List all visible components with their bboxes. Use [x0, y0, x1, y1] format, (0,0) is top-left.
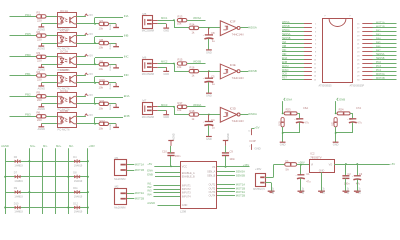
svg-text:AGND: AGND [147, 201, 155, 205]
supply +5V [85, 32, 93, 36]
svg-text:AT90S8535: AT90S8535 [319, 85, 333, 88]
svg-text:AGND: AGND [38, 127, 46, 131]
svg-text:13: 13 [314, 71, 317, 73]
svg-text:MOT1B: MOT1B [376, 25, 385, 28]
ground GND [280, 142, 286, 146]
svg-text:ENB: ENB [339, 98, 345, 102]
power pins IC3P [248, 125, 260, 150]
svg-text:M1: M1 [115, 156, 119, 160]
wire [76, 116, 86, 118]
svg-text:+: + [352, 176, 354, 178]
wire MOT2A [127, 193, 134, 195]
ground AGND [38, 83, 46, 90]
wire row 4 [5, 207, 88, 209]
svg-text:IND: IND [282, 53, 287, 56]
fuse F1 [285, 159, 297, 171]
resistor R7 [99, 19, 109, 31]
diode D10 [14, 202, 24, 213]
ground DGND [110, 43, 119, 50]
diode D4 [73, 156, 83, 167]
svg-text:WNDA: WNDA [248, 112, 257, 116]
wire [297, 113, 300, 115]
svg-text:+5V: +5V [147, 162, 152, 166]
svg-text:1k: 1k [192, 74, 195, 78]
svg-text:GND: GND [254, 147, 260, 151]
wire [240, 114, 248, 116]
junction [208, 70, 210, 72]
svg-text:R21: R21 [331, 121, 334, 126]
svg-text:PA2: PA2 [376, 29, 381, 32]
svg-text:5: 5 [315, 40, 317, 42]
svg-text:WDSA: WDSA [248, 26, 257, 30]
inverter IC3F 74HC14N [220, 20, 243, 37]
svg-text:DGND: DGND [110, 43, 112, 50]
capacitor C9 [222, 150, 236, 167]
svg-text:M2+: M2+ [56, 144, 62, 148]
svg-text:C2: C2 [347, 172, 351, 176]
svg-text:20: 20 [357, 40, 360, 42]
capacitor C8 [203, 28, 216, 43]
svg-text:IN2: IN2 [147, 185, 152, 189]
svg-text:C6A: C6A [303, 106, 308, 110]
svg-text:D9: D9 [14, 187, 18, 190]
ground AGND [38, 24, 46, 31]
wire [76, 43, 116, 45]
svg-text:R4: R4 [37, 70, 41, 74]
svg-text:GND: GND [333, 143, 339, 147]
resistor R12 [99, 119, 109, 131]
svg-text:AGND: AGND [357, 188, 360, 195]
wire [10, 16, 37, 18]
wire [335, 101, 337, 113]
svg-text:ENA: ENA [124, 94, 130, 98]
svg-text:10: 10 [314, 60, 317, 62]
svg-text:6: 6 [315, 44, 317, 46]
ground GND [206, 137, 212, 141]
svg-text:PA7: PA7 [376, 49, 381, 52]
svg-text:10k: 10k [99, 86, 104, 90]
svg-text:11: 11 [314, 64, 317, 66]
svg-text:R13: R13 [178, 14, 183, 18]
svg-text:MOT2B: MOT2B [135, 197, 144, 201]
wire [94, 97, 96, 103]
svg-text:D7: D7 [14, 172, 18, 175]
pin 9 / wire IND [282, 53, 317, 58]
svg-text:D8: D8 [73, 172, 77, 175]
svg-text:10k: 10k [99, 27, 104, 31]
connector M2 [114, 185, 126, 210]
svg-text:D12: D12 [73, 202, 78, 205]
svg-text:SENSA: SENSA [376, 53, 385, 56]
svg-text:30: 30 [357, 79, 360, 81]
svg-text:INA: INA [124, 14, 129, 18]
svg-text:27: 27 [357, 67, 360, 69]
diode D6 [14, 156, 24, 167]
svg-text:VO: VO [329, 164, 333, 167]
svg-text:R19: R19 [278, 121, 281, 126]
svg-text:GND: GND [206, 50, 212, 54]
ground DGND [110, 64, 119, 71]
svg-text:PC3: PC3 [376, 65, 381, 68]
svg-text:IC3D: IC3D [230, 106, 236, 110]
svg-text:MSTBV2,5: MSTBV2,5 [253, 188, 265, 191]
wire [94, 37, 96, 43]
svg-text:GND: GND [280, 143, 286, 147]
wire column 4 [55, 148, 57, 214]
svg-text:IC3E: IC3E [230, 63, 236, 67]
svg-text:+36V: +36V [243, 163, 250, 167]
diode D11 [73, 187, 83, 198]
svg-text:47u: 47u [356, 182, 361, 185]
supply +5V [85, 113, 93, 117]
IC2 GND pin wire [321, 172, 323, 191]
pin 21 / wire PA5 [357, 41, 396, 45]
svg-text:OC1A: OC1A [60, 9, 68, 13]
wire [94, 18, 96, 24]
svg-text:OC3A: OC3A [60, 89, 68, 93]
svg-text:M2: M2 [115, 185, 119, 189]
svg-text:C8: C8 [211, 31, 215, 35]
optocoupler OC3A [58, 89, 77, 111]
svg-text:+: + [203, 78, 205, 80]
junction [94, 82, 96, 84]
svg-text:220: 220 [37, 38, 42, 42]
svg-text:AGND: AGND [346, 188, 349, 195]
wire [41, 103, 57, 105]
svg-text:+: + [203, 35, 205, 37]
svg-text:R10: R10 [100, 78, 106, 82]
optocoupler OC2B [58, 68, 77, 90]
microphone M6 [142, 55, 158, 76]
ground AGND [268, 188, 275, 195]
diode D12 [73, 202, 83, 213]
wire [10, 56, 37, 58]
svg-text:1u: 1u [212, 126, 215, 130]
junction [94, 63, 96, 65]
svg-text:P: P [350, 16, 352, 18]
svg-text:100n: 100n [175, 155, 181, 158]
svg-text:IC2: IC2 [310, 152, 315, 156]
pin 4 / wire SENSA [282, 33, 317, 38]
wire [158, 23, 166, 25]
resistor R19 [278, 118, 284, 127]
connector M1 [114, 156, 126, 181]
ground AGND [298, 188, 305, 195]
wire [46, 96, 57, 98]
svg-text:MIC2SMM: MIC2SMM [142, 29, 154, 33]
svg-text:WDSB: WDSB [248, 69, 257, 73]
optocoupler OC2A [58, 50, 77, 72]
svg-text:MOT1B: MOT1B [135, 168, 144, 172]
wire row 2 [5, 176, 88, 178]
svg-text:AT90S8535P: AT90S8535P [350, 85, 365, 88]
svg-text:SENSB: SENSB [376, 57, 385, 60]
svg-text:25: 25 [357, 60, 360, 62]
svg-text:MIC2SMM: MIC2SMM [142, 72, 154, 76]
svg-text:D10: D10 [14, 202, 19, 205]
wire MOT1A [217, 184, 235, 186]
svg-text:OUT4: OUT4 [209, 195, 216, 198]
svg-text:74HC14N: 74HC14N [232, 33, 244, 37]
IC2 78S05 [310, 152, 335, 173]
svg-text:1N4819: 1N4819 [14, 180, 23, 183]
svg-text:1N4819: 1N4819 [74, 180, 83, 183]
supply +5V [85, 13, 93, 17]
supply +5V [85, 72, 93, 76]
wire [46, 35, 57, 37]
pin 13 / wire MISO [282, 69, 317, 74]
wire [94, 77, 96, 83]
IC4 L298 [180, 162, 217, 214]
wire [158, 20, 174, 22]
junction [335, 113, 337, 115]
svg-text:INPUT4: INPUT4 [182, 195, 192, 198]
resistor R5 [37, 91, 47, 103]
capacitor C6 [294, 106, 309, 124]
ground GND [333, 142, 339, 146]
wire [46, 56, 57, 58]
svg-text:R15: R15 [178, 58, 183, 62]
svg-text:+36V: +36V [255, 167, 262, 171]
wire [350, 113, 353, 115]
wire +5V rail [334, 164, 390, 166]
svg-text:1N4819: 1N4819 [14, 211, 23, 214]
svg-text:PC2: PC2 [376, 61, 381, 64]
svg-text:26: 26 [357, 64, 360, 66]
pin 11 / wire ENB [282, 61, 317, 66]
resistor R14 [189, 22, 199, 34]
svg-text:10k: 10k [177, 65, 182, 69]
svg-text:D11: D11 [73, 187, 78, 190]
svg-text:1k: 1k [192, 117, 195, 121]
svg-text:GND: GND [163, 115, 169, 119]
wire [94, 117, 96, 123]
svg-text:R6: R6 [37, 111, 41, 115]
junction [170, 166, 172, 168]
svg-text:10k: 10k [99, 126, 104, 130]
wire [187, 63, 206, 65]
svg-text:24: 24 [357, 56, 360, 58]
wire [208, 82, 210, 93]
wire MOT2A [217, 191, 235, 193]
svg-text:R17: R17 [178, 101, 183, 105]
svg-text:INB: INB [282, 45, 287, 48]
svg-text:PC4: PC4 [376, 69, 381, 72]
junction [282, 132, 284, 134]
svg-text:7: 7 [315, 48, 317, 50]
wire [41, 43, 57, 45]
resistor R9 [99, 59, 109, 71]
ground AGND (up) [223, 133, 230, 153]
svg-text:MOT2B: MOT2B [236, 194, 245, 198]
svg-text:22: 22 [357, 48, 360, 50]
svg-text:WDSB: WDSB [193, 60, 201, 64]
resistor R10 [99, 78, 109, 90]
svg-text:VI: VI [311, 164, 314, 167]
wire [76, 56, 86, 58]
svg-text:IN3: IN3 [147, 189, 152, 193]
wire [158, 106, 174, 108]
svg-text:MOT2B: MOT2B [376, 77, 385, 80]
svg-text:+5V: +5V [88, 72, 93, 76]
wire column 2 [29, 148, 31, 214]
resistor R8 [99, 38, 109, 50]
wire [10, 96, 37, 98]
svg-text:Mu2KMM: Mu2KMM [114, 177, 125, 181]
wire [282, 127, 284, 142]
svg-text:MOT1B: MOT1B [236, 186, 245, 190]
svg-text:47u: 47u [306, 180, 311, 183]
resistor R3 [37, 51, 47, 63]
svg-text:+5V: +5V [88, 93, 93, 97]
ground GND [163, 24, 169, 33]
svg-text:GND: GND [163, 72, 169, 76]
capacitor C4 [203, 115, 216, 130]
pin 27 / wire PC3 [357, 65, 396, 69]
svg-text:IC3F: IC3F [230, 20, 236, 24]
IC1 AT90S8535 [319, 16, 365, 88]
svg-text:12: 12 [314, 67, 317, 69]
svg-text:F1: F1 [286, 159, 290, 163]
svg-text:4.7u: 4.7u [357, 121, 362, 124]
svg-text:VS: VS [212, 166, 216, 169]
svg-text:D4: D4 [73, 156, 77, 159]
ground GND [206, 50, 212, 54]
svg-text:SEN_A: SEN_A [207, 171, 216, 174]
junction [173, 106, 175, 108]
svg-text:VCC: VCC [182, 165, 187, 168]
pin 17 / wire MOT1B [357, 25, 396, 29]
wire [41, 82, 57, 84]
svg-text:IND: IND [124, 73, 129, 77]
resistor R11 [99, 99, 109, 111]
inverter IC3D 74HC14N [220, 106, 243, 123]
wire [41, 123, 57, 125]
wire [158, 67, 166, 69]
junction [345, 163, 347, 165]
svg-text:C9: C9 [230, 150, 234, 154]
svg-text:220: 220 [37, 18, 42, 22]
wire [158, 63, 174, 65]
svg-text:IN1: IN1 [147, 181, 152, 185]
svg-text:OC2A: OC2A [60, 50, 68, 54]
svg-text:8: 8 [315, 52, 317, 54]
svg-text:220: 220 [37, 98, 42, 102]
pin 19 / wire PA3 [357, 33, 396, 37]
svg-text:MIC2SMM: MIC2SMM [142, 115, 154, 119]
svg-text:R23: R23 [286, 107, 291, 111]
svg-text:SENSA: SENSA [282, 33, 291, 36]
svg-text:AGND: AGND [1, 144, 9, 148]
svg-text:SENSB: SENSB [236, 174, 245, 178]
wire [46, 16, 57, 18]
pin 12 / wire MOSI [282, 65, 317, 70]
optocoupler OC1A [58, 9, 77, 31]
svg-text:7: 7 [249, 146, 250, 148]
ground DGND [110, 103, 119, 110]
capacitor C7 [347, 106, 362, 124]
wire [174, 20, 176, 28]
supply +5V [85, 53, 93, 57]
svg-text:MOT1A: MOT1A [376, 21, 385, 24]
svg-text:100n: 100n [229, 158, 235, 161]
svg-text:AGND: AGND [322, 188, 325, 195]
svg-text:1: 1 [315, 24, 317, 26]
wire MOT1B [127, 170, 134, 172]
wire [46, 116, 57, 118]
svg-text:PA3: PA3 [376, 33, 381, 36]
svg-text:MOT1A: MOT1A [135, 163, 144, 167]
optocoupler OC1B [58, 28, 77, 50]
wire [187, 20, 206, 22]
svg-text:R18: R18 [190, 109, 195, 113]
wire [76, 82, 116, 84]
ground AGND (up) [168, 133, 175, 153]
svg-text:9: 9 [315, 56, 317, 58]
svg-text:+5V: +5V [88, 113, 93, 117]
wire SENSB [217, 175, 235, 177]
svg-text:1N4819: 1N4819 [74, 211, 83, 214]
svg-text:P: P [325, 16, 327, 18]
pin 29 / wire MOT2A [357, 73, 396, 77]
svg-text:4: 4 [315, 36, 317, 38]
svg-text:SCK: SCK [282, 73, 287, 76]
svg-text:15: 15 [314, 79, 317, 81]
svg-text:MOT1A: MOT1A [236, 182, 245, 186]
svg-text:M5: M5 [142, 12, 146, 16]
wire [10, 35, 37, 37]
junction [94, 123, 96, 125]
junction [282, 113, 284, 115]
inverter IC3E 74HC14N [220, 63, 243, 80]
connector X1 [253, 167, 265, 191]
junction [225, 166, 227, 168]
wire [187, 106, 206, 108]
junction [94, 23, 96, 25]
pin 28 / wire PC4 [357, 69, 396, 73]
svg-text:21: 21 [357, 44, 360, 46]
wire [240, 27, 248, 29]
junction [208, 114, 210, 116]
wire [208, 39, 210, 50]
wire [76, 75, 86, 77]
wire MOT2B [127, 198, 134, 200]
svg-text:WDSA: WDSA [193, 16, 201, 20]
optocoupler OC3B [58, 109, 77, 131]
ground DGND [110, 23, 119, 30]
svg-text:Mu2KMM: Mu2KMM [114, 205, 125, 209]
ground AGND [38, 124, 46, 131]
svg-text:ENABLE_B: ENABLE_B [182, 176, 195, 179]
svg-text:INB: INB [124, 33, 129, 37]
svg-text:INPUT1: INPUT1 [182, 184, 192, 187]
svg-text:M1-: M1- [43, 144, 48, 148]
svg-text:R11: R11 [100, 99, 105, 103]
svg-text:MIC2: MIC2 [161, 60, 168, 64]
svg-text:IC3P: IC3P [250, 139, 256, 143]
svg-text:10k: 10k [177, 108, 182, 112]
junction [173, 19, 175, 21]
svg-text:+36V: +36V [89, 144, 96, 148]
svg-text:RST: RST [282, 77, 287, 80]
svg-text:R7: R7 [100, 19, 104, 23]
ground GND [206, 93, 212, 97]
resistor R24 [337, 107, 353, 121]
wire [335, 127, 337, 142]
svg-text:C5: C5 [211, 75, 215, 79]
wire VS / +36V [217, 166, 250, 168]
svg-text:WDSA: WDSA [282, 21, 290, 24]
